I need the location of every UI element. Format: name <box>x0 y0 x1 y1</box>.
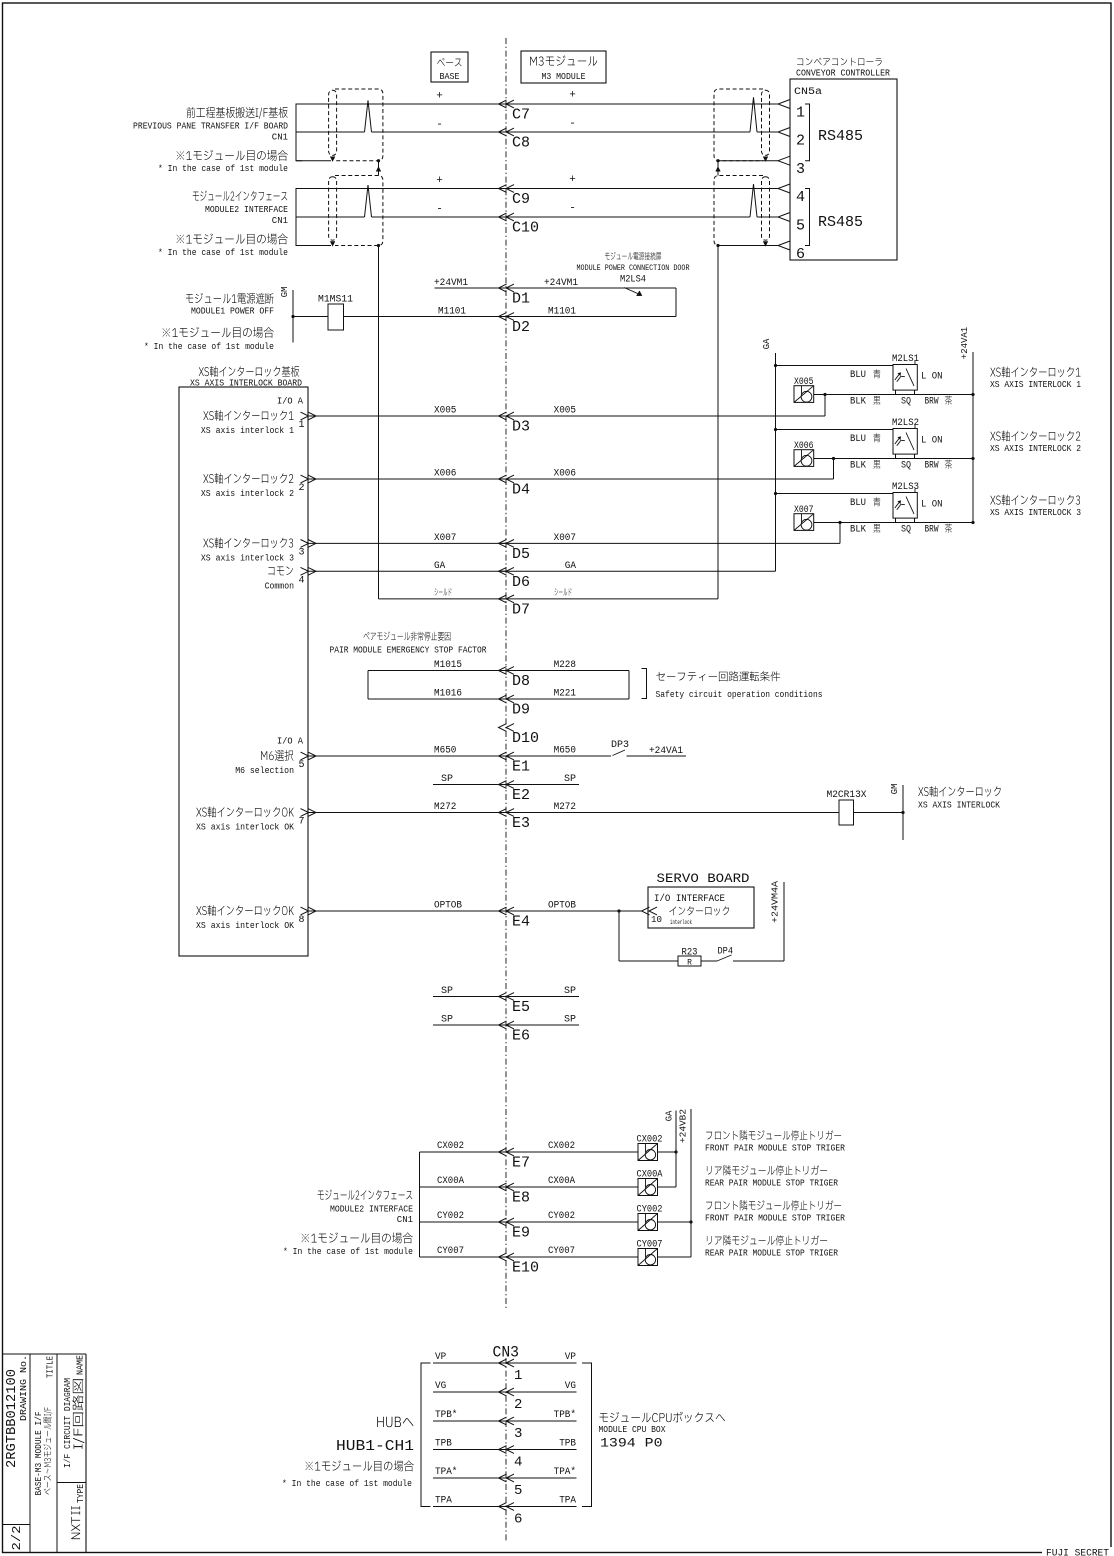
node shield drain right group2 <box>716 244 719 247</box>
svg-text:X007: X007 <box>794 505 814 516</box>
svg-text:D2: D2 <box>512 319 530 336</box>
wire +24VA1 stub (E1) <box>627 755 687 757</box>
wire CX00A (E8) right <box>499 1186 639 1188</box>
svg-text:4: 4 <box>796 189 805 206</box>
svg-text:SQ: SQ <box>901 461 911 472</box>
svg-text:* In the case of 1st module: * In the case of 1st module <box>282 1479 412 1489</box>
svg-text:BRW: BRW <box>925 525 939 536</box>
label BRW M2LS1 <box>925 396 953 408</box>
svg-text:M2CR13X: M2CR13X <box>827 790 867 801</box>
label SERVO BOARD <box>657 871 750 886</box>
board pin 5 (M6 selection) <box>261 750 293 761</box>
wire X005 down to row <box>824 395 826 417</box>
svg-text:+24VB2: +24VB2 <box>679 1109 689 1143</box>
node E4 center arrow <box>499 907 531 930</box>
net +24VM4A <box>771 880 785 961</box>
wire M272 (E3) right <box>499 812 840 814</box>
wire X006 down to row <box>833 459 835 480</box>
label OPTOB left <box>434 901 462 912</box>
svg-text:TPB*: TPB* <box>435 1409 457 1421</box>
label GA right <box>565 561 576 572</box>
svg-text:X005: X005 <box>794 377 814 388</box>
CN3 pin 1 arrow <box>499 1359 523 1384</box>
label CY007 left <box>437 1246 464 1257</box>
label E7 trigger <box>706 1130 841 1140</box>
svg-text:GM: GM <box>280 287 290 298</box>
node shield drain right group1 <box>716 159 719 162</box>
label TPA right <box>559 1496 576 1507</box>
svg-text:TPA*: TPA* <box>435 1466 457 1478</box>
header box M3 MODULE <box>521 51 606 83</box>
label SP left (E5) <box>441 986 453 997</box>
label M272 right <box>554 802 576 813</box>
node D7 center arrow <box>499 595 531 618</box>
RS485 bracket pins 1-3 <box>805 104 863 161</box>
svg-text:E7: E7 <box>512 1155 530 1172</box>
svg-text:D4: D4 <box>512 482 530 499</box>
svg-text:+: + <box>436 175 443 187</box>
svg-text:BRW: BRW <box>925 397 939 408</box>
connector CN3 label <box>493 1344 520 1362</box>
svg-text:M2LS4: M2LS4 <box>620 275 646 286</box>
wire shield link right group1-group2 <box>716 161 720 176</box>
node D2 center arrow <box>499 313 531 336</box>
wire shield (D7) right <box>499 598 719 600</box>
net GA bus <box>762 338 776 571</box>
label VG right <box>565 1381 576 1392</box>
node E2 center arrow <box>499 781 531 804</box>
svg-text:E9: E9 <box>512 1225 530 1242</box>
svg-text:D9: D9 <box>512 702 530 719</box>
title TYPE cell <box>71 1484 86 1539</box>
svg-text:SP: SP <box>564 774 576 785</box>
svg-text:1: 1 <box>796 105 805 122</box>
svg-text:TPA: TPA <box>435 1496 452 1507</box>
svg-text:X006: X006 <box>554 469 576 480</box>
label X005 left <box>434 406 456 417</box>
input point CX002 <box>637 1135 663 1161</box>
wire shield drain left group1 <box>296 160 331 162</box>
node C7 center arrow <box>499 100 531 123</box>
label MODULE1 POWER OFF <box>186 293 274 304</box>
label VG left <box>435 1381 446 1392</box>
label XS軸インターロック2 right <box>990 430 1080 441</box>
label CY002 left <box>437 1211 464 1222</box>
label SQ M2LS3 <box>901 525 911 536</box>
svg-text:CY002: CY002 <box>637 1205 663 1216</box>
svg-text:X007: X007 <box>434 533 456 544</box>
label E10 trigger <box>707 1235 827 1245</box>
label M228 <box>554 660 576 671</box>
svg-text:GA: GA <box>434 561 445 572</box>
polarity labels C7 <box>436 90 576 103</box>
svg-text:D7: D7 <box>512 601 530 618</box>
svg-text:TPB: TPB <box>435 1439 452 1450</box>
title sheet 2/2 <box>10 1526 24 1551</box>
wire +24VM1 left segment <box>435 287 507 289</box>
servo pin 10 arrow <box>642 907 663 925</box>
svg-text:BRW: BRW <box>925 461 939 472</box>
label TPA left <box>435 1496 452 1507</box>
svg-text:R: R <box>687 959 692 968</box>
net GM bar (E3) <box>890 784 903 840</box>
svg-text:+24VM1: +24VM1 <box>434 278 468 289</box>
svg-text:CN1: CN1 <box>272 216 288 226</box>
svg-text:-: - <box>436 204 443 216</box>
node E3 center arrow <box>499 809 531 832</box>
node BLK junction X005 <box>823 393 826 396</box>
board pin 2 (XS axis interlock 2) <box>203 473 293 484</box>
wire M650 (E1) left <box>308 755 506 757</box>
wire GA (D6) left <box>308 570 506 572</box>
servo board box <box>648 887 754 928</box>
svg-text:3: 3 <box>299 547 305 558</box>
node +24VA1 junction M2LS1 <box>971 393 974 396</box>
svg-text:3: 3 <box>796 161 805 178</box>
wire M2CR13X to GM <box>854 812 904 814</box>
wire CX00A to bus <box>658 1186 677 1188</box>
svg-text:* In the case of 1st module: * In the case of 1st module <box>283 1247 413 1257</box>
svg-text:D10: D10 <box>512 730 539 747</box>
svg-text:SP: SP <box>564 1015 576 1026</box>
svg-text:BASE-M3 MODULE I/F: BASE-M3 MODULE I/F <box>34 1412 44 1496</box>
label +24VA1 (E1) <box>649 746 683 757</box>
module boundary centerline (BASE / M3 MODULE) <box>505 38 507 1541</box>
polarity labels C8 <box>436 118 576 131</box>
label M650 right <box>554 746 576 757</box>
wire E4 branch down <box>619 911 678 961</box>
svg-text:FRONT PAIR MODULE STOP TRIGER: FRONT PAIR MODULE STOP TRIGER <box>705 1144 846 1154</box>
shield dashed box group2 left <box>329 176 383 246</box>
wire C10 right <box>499 216 779 218</box>
wire CY007 (E10) left <box>420 1256 507 1258</box>
label M272 left <box>434 802 456 813</box>
wire GA (D6) right <box>499 570 776 572</box>
relay coil M2CR13X <box>827 790 867 825</box>
polarity labels C10 <box>436 203 576 216</box>
svg-text:BLU: BLU <box>850 370 866 381</box>
svg-text:E2: E2 <box>512 787 530 804</box>
note 1st module case (C9 group) <box>177 233 288 244</box>
svg-text:CX002: CX002 <box>437 1141 464 1152</box>
svg-text:VG: VG <box>565 1381 576 1392</box>
svg-text:OPTOB: OPTOB <box>434 901 462 912</box>
svg-text:RS485: RS485 <box>818 128 863 145</box>
label CX00A right <box>548 1176 575 1187</box>
wire CY007 to bus <box>658 1256 692 1258</box>
svg-text:CONVEYOR CONTROLLER: CONVEYOR CONTROLLER <box>796 69 891 79</box>
svg-text:XS axis interlock 1: XS axis interlock 1 <box>201 426 294 436</box>
wire X006 (D4) right <box>499 478 834 480</box>
svg-text:CX002: CX002 <box>548 1141 575 1152</box>
bracket CN3 left <box>421 1363 431 1507</box>
wire VP (CN3-1) right <box>499 1362 577 1364</box>
wire shield case line to pin6 <box>718 245 778 247</box>
wire DP4 to +24VM4A <box>733 960 784 962</box>
bracket D8/D9 left <box>367 671 369 700</box>
svg-text:C10: C10 <box>512 220 539 237</box>
svg-text:FUJI SECRET: FUJI SECRET <box>1046 1549 1109 1556</box>
label M1101 right <box>548 307 576 318</box>
node D4 center arrow <box>499 475 531 498</box>
svg-text:D1: D1 <box>512 291 530 308</box>
limit switch M2LS2 <box>892 418 943 454</box>
svg-text:BLK: BLK <box>850 397 866 408</box>
contact M1MS11 <box>318 295 353 331</box>
wire OPTOB (E4) right <box>499 910 642 912</box>
svg-text:M272: M272 <box>434 802 456 813</box>
node C10 center arrow <box>499 213 540 236</box>
svg-text:-: - <box>569 203 576 215</box>
label M221 <box>554 689 576 700</box>
label SP right (E5) <box>564 986 576 997</box>
node E5 center arrow <box>499 993 531 1016</box>
node C8 center arrow <box>499 128 531 151</box>
node E10 center arrow <box>499 1253 540 1276</box>
title DRAWING No cell <box>4 1355 29 1468</box>
svg-text:TPB: TPB <box>559 1439 576 1450</box>
svg-text:BLU: BLU <box>850 434 866 445</box>
svg-text:XS axis interlock 3: XS axis interlock 3 <box>201 553 294 563</box>
bracket CN3 right <box>582 1363 592 1507</box>
label TPB right <box>559 1439 576 1450</box>
svg-text:2: 2 <box>299 483 305 494</box>
svg-text:XS AXIS INTERLOCK: XS AXIS INTERLOCK <box>918 801 1001 811</box>
label TPA* left <box>435 1466 457 1478</box>
label CY007 right <box>548 1246 575 1257</box>
CN5a pin 4 arrow <box>778 184 805 206</box>
node BLK junction X006 <box>832 457 835 460</box>
svg-text:XS AXIS INTERLOCK 3: XS AXIS INTERLOCK 3 <box>990 508 1081 518</box>
svg-text:HUB1-CH1: HUB1-CH1 <box>336 1438 414 1455</box>
svg-text:SP: SP <box>564 986 576 997</box>
svg-text:MODULE2 INTERFACE: MODULE2 INTERFACE <box>330 1205 413 1215</box>
wire M228 (D8) right <box>499 670 630 672</box>
svg-text:4: 4 <box>514 1455 522 1471</box>
board pin 1 (XS axis interlock 1) <box>203 410 293 421</box>
limit switch M2LS1 bottom stubs <box>896 390 915 394</box>
wire VG (CN3-2) right <box>499 1391 577 1393</box>
resistor R23 <box>678 948 701 968</box>
svg-text:MODULE2 INTERFACE: MODULE2 INTERFACE <box>205 205 288 215</box>
conveyor controller label <box>797 58 881 66</box>
input point X006 <box>794 441 814 466</box>
svg-text:I/O A: I/O A <box>277 397 304 407</box>
svg-text:Safety circuit operation condi: Safety circuit operation conditions <box>656 690 823 700</box>
label TPB* left <box>435 1409 457 1421</box>
label M650 left <box>434 746 456 757</box>
node BLK junction X007 <box>838 521 841 524</box>
wire shield drain left group2 <box>296 245 331 247</box>
svg-text:L ON: L ON <box>921 372 943 383</box>
label M1101 left <box>438 307 466 318</box>
label SP right (E2) <box>564 774 576 785</box>
svg-text:-: - <box>436 119 443 131</box>
svg-text:E3: E3 <box>512 815 530 832</box>
svg-text:M221: M221 <box>554 689 576 700</box>
label CX002 left <box>437 1141 464 1152</box>
wire VP (CN3-1) left <box>433 1362 506 1364</box>
svg-text:D5: D5 <box>512 546 530 563</box>
svg-text:I/O A: I/O A <box>277 737 304 747</box>
shield dashed box group1 right <box>714 89 770 161</box>
svg-text:M1101: M1101 <box>548 307 576 318</box>
wire C7 left <box>296 103 506 105</box>
svg-text:M1016: M1016 <box>434 689 462 700</box>
wire M1016 (D9) left <box>368 698 506 700</box>
wire C8 left <box>296 131 506 133</box>
wire M2LS4 vertical <box>675 288 677 317</box>
net +24VA1 bus <box>960 327 973 523</box>
label SP left (E2) <box>441 774 453 785</box>
polarity labels C9 <box>436 174 576 187</box>
label X007 left <box>434 533 456 544</box>
label I/O A (pin1) <box>277 397 304 407</box>
svg-text:10: 10 <box>651 915 662 925</box>
limit switch M2LS1 <box>892 354 943 390</box>
svg-text:DP4: DP4 <box>718 946 734 957</box>
wire SP (E6) left <box>433 1024 506 1026</box>
wire M1101 to center <box>344 316 507 318</box>
CN5a pin 3 arrow <box>778 156 805 178</box>
label BLK M2LS2 <box>850 460 880 471</box>
node +24VB2 junction E9 <box>689 1220 692 1223</box>
svg-text:TITLE: TITLE <box>45 1356 55 1378</box>
wire SP (E6) right <box>499 1024 580 1026</box>
CN3 pin 4 arrow <box>499 1446 523 1471</box>
node +24VA1 junction M2LS3 <box>971 521 974 524</box>
twisted pair spike left group2 <box>365 185 372 217</box>
svg-text:MODULE CPU BOX: MODULE CPU BOX <box>599 1425 667 1435</box>
node D10 center arrow <box>499 724 540 747</box>
node GA junction M2LS3 <box>774 492 777 495</box>
wire M1101 left <box>293 316 328 318</box>
input point CX00A <box>637 1170 663 1196</box>
label CY002 right <box>548 1211 575 1222</box>
board pin 4 (Common) <box>268 566 293 575</box>
node D3 center arrow <box>499 412 531 435</box>
svg-text:SQ: SQ <box>901 397 911 408</box>
CN5a pin 1 arrow <box>778 100 805 122</box>
wire M650 (E1) right <box>499 755 612 757</box>
svg-text:DRAWING No.: DRAWING No. <box>19 1355 29 1421</box>
svg-text:4: 4 <box>299 575 305 586</box>
svg-text:XS AXIS INTERLOCK 2: XS AXIS INTERLOCK 2 <box>990 444 1081 454</box>
connector label CN5a <box>794 87 822 98</box>
input point X005 <box>794 377 814 402</box>
node GA junction M2LS1 <box>774 364 777 367</box>
input point CY002 <box>637 1205 663 1231</box>
label SQ M2LS1 <box>901 397 911 408</box>
svg-text:CY002: CY002 <box>548 1211 575 1222</box>
twisted pair spike right group2 <box>750 184 757 217</box>
label OPTOB right <box>548 901 576 912</box>
wire C9 left <box>296 188 506 190</box>
net +24VB2 bus <box>679 1109 692 1257</box>
conveyor controller box CN5a <box>790 79 897 260</box>
label GA left <box>434 561 445 572</box>
svg-text:+24VM1: +24VM1 <box>544 278 578 289</box>
svg-text:CY002: CY002 <box>437 1211 464 1222</box>
wire CX00A (E8) left <box>420 1186 507 1188</box>
svg-text:-: - <box>569 118 576 130</box>
label TPA* right <box>554 1466 576 1478</box>
svg-text:CY007: CY007 <box>437 1246 464 1257</box>
net GM stub <box>280 287 293 343</box>
label X006 right <box>554 469 576 480</box>
wire SP (E2) left <box>433 784 506 786</box>
svg-text:E4: E4 <box>512 914 530 931</box>
node GA junction M2LS2 <box>774 428 777 431</box>
wire shield (D7) left <box>379 598 507 600</box>
bracket E7-E10 <box>419 1152 421 1257</box>
svg-text:SERVO BOARD: SERVO BOARD <box>657 871 750 886</box>
svg-text:BLU: BLU <box>850 498 866 509</box>
svg-text:+: + <box>569 174 576 186</box>
svg-text:X005: X005 <box>434 406 456 417</box>
wire TPA* (CN3-5) left <box>433 1477 506 1479</box>
svg-text:TYPE: TYPE <box>76 1484 86 1503</box>
svg-text:Common: Common <box>265 581 294 591</box>
wire TPB (CN3-4) left <box>433 1449 506 1451</box>
input point CY007 <box>637 1240 663 1266</box>
wire TPB* (CN3-3) left <box>433 1420 506 1422</box>
label XS AXIS INTERLOCK BOARD <box>199 366 299 377</box>
svg-text:CX00A: CX00A <box>637 1170 663 1181</box>
label shield right <box>555 588 572 595</box>
svg-text:5: 5 <box>299 760 305 771</box>
RS485 bracket pins 4-6 <box>805 189 863 246</box>
svg-text:M272: M272 <box>554 802 576 813</box>
wire TPB (CN3-4) right <box>499 1449 577 1451</box>
node +24VA1 junction M2LS2 <box>971 457 974 460</box>
node C9 center arrow <box>499 185 531 208</box>
label VP left <box>435 1352 446 1363</box>
label BLU M2LS3 <box>850 497 880 509</box>
svg-text:M228: M228 <box>554 660 576 671</box>
svg-text:TPB*: TPB* <box>554 1409 576 1421</box>
svg-text:MODULE POWER CONNECTION DOOR: MODULE POWER CONNECTION DOOR <box>577 264 690 273</box>
limit switch M2LS2 bottom stubs <box>896 454 915 458</box>
node M1MS11 left <box>291 315 294 318</box>
svg-text:NAME: NAME <box>76 1355 86 1375</box>
wire OPTOB (E4) left <box>308 910 506 912</box>
node E1 center arrow <box>499 752 531 775</box>
svg-text:2: 2 <box>514 1397 522 1413</box>
label PREVIOUS PANE TRANSFER I/F BOARD CN1 <box>187 107 288 119</box>
svg-text:5: 5 <box>514 1483 522 1499</box>
svg-text:M650: M650 <box>554 746 576 757</box>
note 1st module case (C7 group) <box>177 150 288 161</box>
svg-text:XS axis interlock OK: XS axis interlock OK <box>196 921 295 931</box>
board pin 7 (XS axis interlock OK) <box>196 806 294 817</box>
label BRW M2LS3 <box>925 524 953 536</box>
wire X005 (D3) right <box>499 415 826 417</box>
label safety circuit operation conditions <box>656 671 780 681</box>
bracket CN1 group2 <box>296 189 302 246</box>
svg-text:1394 P0: 1394 P0 <box>600 1436 663 1451</box>
svg-text:1: 1 <box>299 420 305 431</box>
label CX002 right <box>548 1141 575 1152</box>
wire SP (E5) left <box>433 996 506 998</box>
wire CX002 to bus <box>658 1151 677 1153</box>
label VP right <box>565 1352 576 1363</box>
svg-text:2RGTBB012100: 2RGTBB012100 <box>4 1369 20 1468</box>
bracket D8/D9 right <box>628 671 630 700</box>
label +24VM1 left <box>434 278 468 289</box>
node OPTOB branch <box>617 909 620 912</box>
svg-text:E8: E8 <box>512 1190 530 1207</box>
